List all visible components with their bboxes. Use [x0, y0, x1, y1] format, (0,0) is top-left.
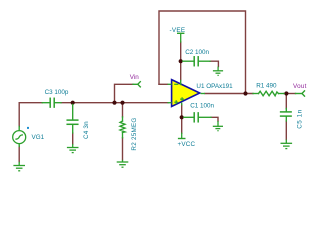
svg-text:C2 100n: C2 100n: [185, 49, 209, 56]
svg-text:-VEE: -VEE: [170, 27, 186, 34]
svg-text:R2 25MEG: R2 25MEG: [131, 117, 138, 150]
svg-text:+VCC: +VCC: [178, 141, 196, 148]
svg-text:C5 1n: C5 1n: [296, 109, 303, 129]
svg-text:U1 OPAx191: U1 OPAx191: [196, 83, 233, 90]
svg-text:C4 3n: C4 3n: [83, 121, 90, 139]
svg-text:R1 490: R1 490: [256, 82, 277, 89]
svg-text:C1 100n: C1 100n: [190, 103, 214, 110]
svg-text:Vin: Vin: [130, 74, 139, 81]
svg-text:VG1: VG1: [32, 134, 45, 141]
svg-text:C3 100p: C3 100p: [45, 89, 69, 96]
svg-text:Vout: Vout: [293, 83, 307, 90]
